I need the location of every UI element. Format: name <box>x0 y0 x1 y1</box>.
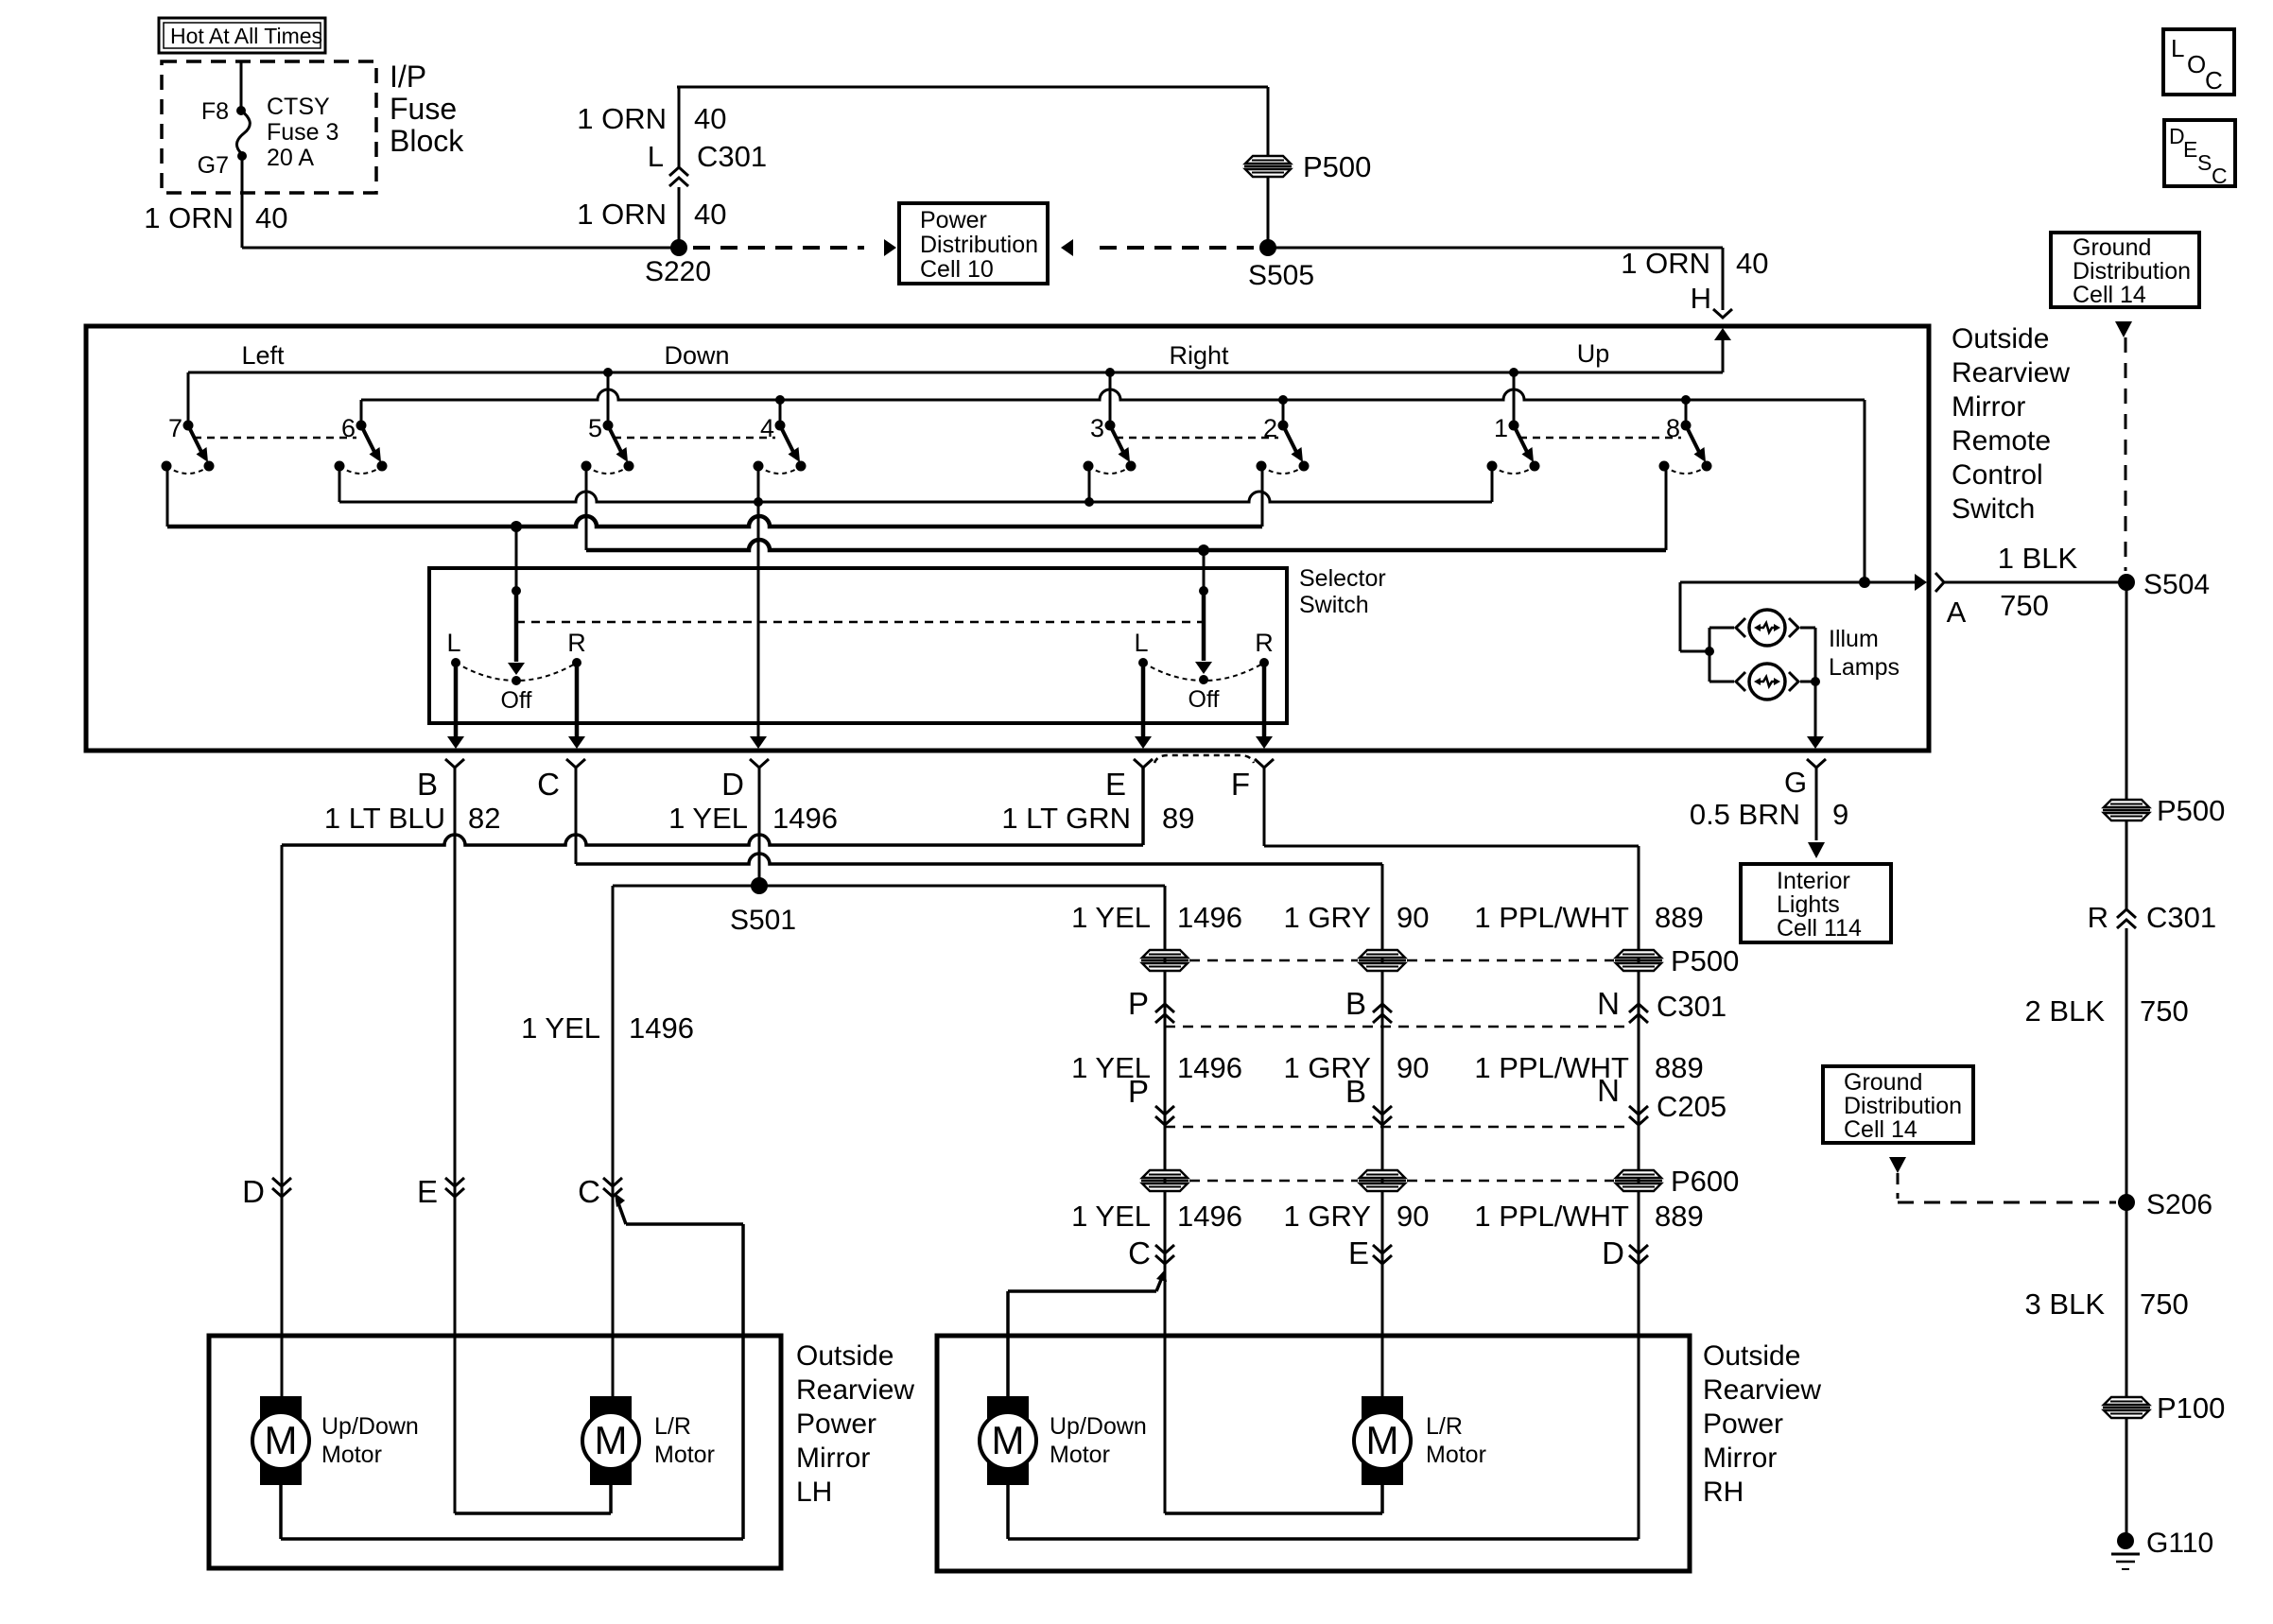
wire 6L down <box>338 466 341 502</box>
label row2 1 YEL 1496 <box>1071 1051 1242 1084</box>
connector pin F <box>1255 759 1274 768</box>
wire selector-right feed <box>1203 550 1206 588</box>
wire 1L down <box>1491 466 1494 502</box>
svg-text:Distribution: Distribution <box>1844 1093 1962 1119</box>
svg-text:40: 40 <box>694 102 726 135</box>
wire riser pivot 6 <box>360 400 363 422</box>
node bus B tap 4 <box>775 395 785 405</box>
label 1 ORN 40 below C301 <box>577 198 726 231</box>
connector A <box>1935 573 1967 629</box>
wire 4L to connector D <box>750 466 767 749</box>
svg-text:Interior: Interior <box>1777 868 1850 894</box>
svg-text:S220: S220 <box>645 256 711 287</box>
contact selector-left R <box>567 629 586 667</box>
fuse F8 terminal <box>236 106 246 115</box>
wire S206 to P100 <box>2126 1210 2128 1399</box>
wire 1 ORN 40 from fuse <box>242 156 673 248</box>
wire bus B <box>361 389 1865 400</box>
svg-text:889: 889 <box>1655 1200 1704 1233</box>
svg-text:D: D <box>721 767 744 802</box>
svg-text:Lights: Lights <box>1777 891 1840 918</box>
wire RH C-pin to LR motor bottom <box>1165 1485 1382 1513</box>
connector C301 PPL pin N <box>1629 1004 1648 1023</box>
node selector-right <box>1199 586 1208 596</box>
svg-text:L/R: L/R <box>654 1413 691 1440</box>
svg-text:1 LT BLU: 1 LT BLU <box>324 802 445 835</box>
svg-text:Up/Down: Up/Down <box>1050 1413 1147 1440</box>
motor LH L/R <box>582 1396 715 1485</box>
wire RH UpDown top to pin C (jog arrow) <box>1008 1270 1167 1396</box>
box Outside Rearview Mirror Remote Control Switch <box>86 326 1929 751</box>
label 1 YEL 1496 mid <box>521 1011 694 1045</box>
dashed link P500 row <box>1189 959 1614 962</box>
svg-text:1 ORN: 1 ORN <box>577 102 667 135</box>
svg-text:S505: S505 <box>1248 260 1314 291</box>
connector P500 PPL <box>1615 950 1662 971</box>
svg-text:Selector: Selector <box>1299 565 1386 592</box>
wire P100 to G110 <box>2126 1417 2128 1534</box>
label C205 mid <box>1657 1090 1726 1123</box>
svg-text:1496: 1496 <box>1177 1051 1242 1084</box>
wire riser pivot 5 <box>607 372 610 422</box>
wire LH UpDown bottom to pin C (jog arrow) <box>281 1193 743 1539</box>
svg-text:Power: Power <box>796 1408 876 1440</box>
dashed connector bracket E-F <box>1154 755 1254 763</box>
wire S501 to LH pin C <box>613 886 759 1396</box>
label row3 1 PPL/WHT 889 <box>1474 1200 1703 1233</box>
svg-text:LH: LH <box>796 1477 832 1508</box>
svg-text:889: 889 <box>1655 901 1704 934</box>
label P500 mid <box>1671 944 1739 977</box>
svg-text:C: C <box>537 767 560 802</box>
svg-text:Distribution: Distribution <box>920 232 1038 258</box>
label P B N row1 <box>1128 986 1620 1021</box>
svg-text:Outside: Outside <box>796 1340 894 1372</box>
svg-text:Fuse 3: Fuse 3 <box>267 119 338 146</box>
wire LH pin D column <box>281 845 284 1396</box>
connector RH pin D <box>1602 1235 1648 1270</box>
wire 3L down <box>1088 466 1091 502</box>
svg-text:Outside: Outside <box>1703 1340 1800 1372</box>
connector P500 GRY <box>1359 950 1406 971</box>
svg-text:C: C <box>2205 66 2223 95</box>
dashed link 1-8 <box>1519 437 1681 440</box>
dashed arc selector-left <box>456 663 577 681</box>
wire 7L down <box>166 466 169 527</box>
svg-text:2 BLK: 2 BLK <box>2025 994 2106 1028</box>
svg-text:S501: S501 <box>730 905 796 936</box>
wire fuse feed <box>240 61 243 107</box>
wire bus 531 (6L to 1L) <box>339 492 1492 502</box>
svg-text:C301: C301 <box>697 140 767 173</box>
selector-right wiper arrow <box>1195 591 1212 674</box>
connector RH pin E <box>1348 1235 1392 1270</box>
node selector-left tap <box>511 521 522 532</box>
connector pin E <box>1134 759 1153 768</box>
junction S504 <box>2118 569 2210 600</box>
label Illum Lamps <box>1829 626 1900 681</box>
label row1 1 YEL 1496 <box>1071 901 1242 934</box>
svg-text:E: E <box>1348 1235 1369 1270</box>
label Down <box>664 341 729 370</box>
label 1 BLK 750 <box>1998 542 2078 622</box>
ground triangle upper <box>2115 321 2132 337</box>
node illum junction <box>1859 577 1870 588</box>
motor RH Up/Down <box>980 1396 1147 1485</box>
svg-text:Mirror: Mirror <box>1703 1443 1777 1474</box>
svg-text:40: 40 <box>694 198 726 231</box>
svg-text:Cell 14: Cell 14 <box>2073 282 2146 308</box>
node bus A tap 3 <box>1105 368 1115 377</box>
svg-text:I/P: I/P <box>390 60 426 94</box>
junction S501 <box>730 877 796 936</box>
node selector-left <box>512 586 521 596</box>
switch pole 7 <box>162 414 215 474</box>
svg-text:40: 40 <box>1736 247 1768 280</box>
connector pin D <box>750 759 769 768</box>
svg-text:R: R <box>2088 901 2108 934</box>
switch pole 3 <box>1084 414 1136 474</box>
node bus A tap 5 <box>603 368 613 377</box>
svg-text:S206: S206 <box>2146 1189 2212 1220</box>
switch pole 1 <box>1487 414 1540 474</box>
svg-text:Up/Down: Up/Down <box>321 1413 419 1440</box>
dashed link C301 row <box>1165 1026 1629 1028</box>
svg-text:1 GRY: 1 GRY <box>1284 901 1371 934</box>
svg-text:1 ORN: 1 ORN <box>1621 247 1710 280</box>
svg-text:82: 82 <box>468 802 500 835</box>
svg-text:1 PPL/WHT: 1 PPL/WHT <box>1474 1200 1629 1233</box>
junction S206 <box>2118 1189 2212 1220</box>
box Outside Rearview Power Mirror RH <box>937 1336 1690 1571</box>
svg-text:90: 90 <box>1397 1051 1429 1084</box>
wire R to connector C <box>568 663 585 749</box>
connector P500 right rail <box>2103 794 2225 827</box>
svg-text:9: 9 <box>1832 798 1848 831</box>
svg-text:1496: 1496 <box>1177 901 1242 934</box>
switch pole 8 <box>1659 414 1712 474</box>
svg-text:L: L <box>1134 629 1148 657</box>
svg-text:P100: P100 <box>2157 1391 2225 1425</box>
svg-text:Rearview: Rearview <box>1703 1374 1821 1406</box>
svg-text:90: 90 <box>1397 901 1429 934</box>
label P B N row2 <box>1128 1073 1620 1109</box>
label Selector Switch <box>1299 565 1386 618</box>
node 3L on bus 531 <box>1084 497 1094 507</box>
motor RH L/R <box>1354 1396 1486 1485</box>
svg-text:Ground: Ground <box>2073 234 2151 261</box>
wire RH E column <box>1381 864 1384 1396</box>
svg-text:Off: Off <box>501 687 532 714</box>
wire illum lower out <box>1800 681 1815 683</box>
svg-text:0.5 BRN: 0.5 BRN <box>1690 798 1800 831</box>
wire link 894 (E to LH pin D) <box>282 768 1143 845</box>
label 0.5 BRN 9 <box>1690 798 1848 831</box>
connector P500 top <box>1244 150 1371 183</box>
label F <box>1231 767 1250 802</box>
label 2 BLK 750 <box>2025 994 2189 1028</box>
svg-text:P500: P500 <box>1671 944 1739 977</box>
ground triangle lower <box>1889 1157 1906 1173</box>
svg-text:G: G <box>1784 766 1807 799</box>
motor LH Up/Down <box>252 1396 419 1485</box>
svg-text:E: E <box>417 1174 438 1209</box>
connector C205 PPL pin N <box>1629 1106 1648 1125</box>
label C301 mid <box>1657 990 1726 1023</box>
svg-text:Motor: Motor <box>321 1442 382 1468</box>
svg-text:L: L <box>446 629 460 657</box>
wire L to connector B <box>447 663 464 749</box>
svg-text:Remote: Remote <box>1952 425 2051 457</box>
label I/P Fuse Block <box>390 60 464 158</box>
switch pole 6 <box>335 414 388 474</box>
dashed arc selector-right <box>1143 663 1264 681</box>
svg-text:Switch: Switch <box>1299 592 1369 618</box>
dashed mech link selector <box>516 621 1204 624</box>
svg-text:H: H <box>1691 282 1711 315</box>
label C <box>537 767 560 802</box>
svg-text:Motor: Motor <box>654 1442 715 1468</box>
svg-text:S: S <box>2197 150 2212 175</box>
connector RH pin C <box>1128 1235 1174 1270</box>
svg-text:1496: 1496 <box>772 802 838 835</box>
wire S505 to H <box>1268 248 1723 310</box>
svg-text:Ground: Ground <box>1844 1069 1922 1096</box>
connector LH pin C <box>578 1174 622 1209</box>
wire riser pivot 3 <box>1109 372 1112 422</box>
label D <box>721 767 744 802</box>
box Power Distribution Cell 10 <box>899 203 1048 284</box>
svg-text:Cell 10: Cell 10 <box>920 256 994 283</box>
svg-text:N: N <box>1597 1073 1620 1108</box>
svg-text:F8: F8 <box>201 98 229 125</box>
junction S220 <box>645 239 711 287</box>
svg-text:C: C <box>2212 164 2228 188</box>
connector P600 YEL <box>1141 1170 1189 1191</box>
connector C301 GRY pin B <box>1373 1004 1392 1023</box>
label 1 LT BLU 82 <box>324 802 501 835</box>
wire bus A <box>188 372 1723 422</box>
switch pole 5 <box>581 414 634 474</box>
svg-text:Switch: Switch <box>1952 493 2035 525</box>
svg-text:90: 90 <box>1397 1200 1429 1233</box>
svg-text:750: 750 <box>2000 589 2049 622</box>
svg-text:Illum: Illum <box>1829 626 1879 652</box>
svg-text:Control: Control <box>1952 459 2043 491</box>
svg-text:B: B <box>417 767 438 802</box>
wire B to LH pin E <box>454 768 457 1513</box>
svg-text:1 YEL: 1 YEL <box>1071 1200 1151 1233</box>
label Up <box>1577 339 1610 368</box>
connector P500 YEL <box>1141 950 1189 971</box>
svg-text:89: 89 <box>1162 802 1194 835</box>
connector R C301 <box>2088 901 2217 934</box>
svg-text:N: N <box>1597 986 1620 1021</box>
svg-text:Motor: Motor <box>1050 1442 1110 1468</box>
wire riser pivot 4 <box>779 400 782 422</box>
svg-text:R: R <box>567 629 586 657</box>
svg-text:R: R <box>1255 629 1274 657</box>
label 1 YEL 1496 top <box>668 802 838 835</box>
node bus A tap 1 <box>1509 368 1518 377</box>
wire illum to connector G <box>1807 628 1824 749</box>
label 3 BLK 750 <box>2025 1287 2189 1321</box>
svg-text:CTSY: CTSY <box>267 94 330 120</box>
wire C down <box>575 768 578 864</box>
svg-text:A: A <box>1947 596 1967 629</box>
ground G110 <box>2111 1528 2213 1569</box>
svg-text:1 YEL: 1 YEL <box>1071 901 1151 934</box>
contact selector-left Off <box>512 676 521 685</box>
connector P600 PPL <box>1615 1170 1662 1191</box>
label 1 ORN 40 above C301 <box>577 102 726 135</box>
svg-text:Outside: Outside <box>1952 323 2049 354</box>
label P600 mid <box>1671 1165 1739 1198</box>
fuse CTSY Fuse 3 20A element <box>236 111 250 154</box>
connector LH pin E <box>417 1174 464 1209</box>
node illum branch <box>1705 647 1714 656</box>
contact selector-left L <box>446 629 460 667</box>
svg-text:D: D <box>1602 1235 1624 1270</box>
svg-text:1496: 1496 <box>629 1011 694 1045</box>
wire 8L down <box>1665 466 1668 550</box>
node bus B tap 2 <box>1278 395 1288 405</box>
connector L C301 <box>648 140 767 186</box>
svg-text:RH: RH <box>1703 1477 1744 1508</box>
dashed link 5-4 <box>614 437 775 440</box>
wire P500 to S505 <box>1267 176 1270 248</box>
dashed wire ground to S206 <box>1898 1173 2116 1202</box>
node illum out junction <box>1811 677 1820 686</box>
svg-text:3: 3 <box>1090 414 1104 442</box>
svg-text:C301: C301 <box>2146 901 2216 934</box>
label E <box>1105 767 1126 802</box>
label B <box>417 767 438 802</box>
svg-text:5: 5 <box>588 414 602 442</box>
wire illum left drop <box>1680 582 1709 651</box>
svg-text:G7: G7 <box>198 152 229 179</box>
wire link 914 (C to RH E column) <box>576 854 1382 864</box>
svg-text:Rearview: Rearview <box>796 1374 914 1406</box>
label row3 1 GRY 90 <box>1284 1200 1430 1233</box>
connector H <box>1691 282 1732 318</box>
svg-text:P500: P500 <box>2157 794 2225 827</box>
label Outside Rearview Power Mirror LH <box>796 1340 914 1508</box>
svg-text:Hot At All Times: Hot At All Times <box>170 24 322 48</box>
svg-text:1 LT GRN: 1 LT GRN <box>1001 802 1131 835</box>
node bus B tap 8 <box>1681 395 1691 405</box>
box Outside Rearview Power Mirror LH <box>209 1336 781 1568</box>
label row2 1 GRY 90 <box>1284 1051 1430 1084</box>
box Hot At All Times <box>159 18 325 53</box>
svg-text:P: P <box>1128 1074 1149 1109</box>
svg-text:E: E <box>1105 767 1126 802</box>
svg-text:B: B <box>1345 1074 1366 1109</box>
svg-text:20 A: 20 A <box>267 145 314 171</box>
switch pole 2 <box>1257 414 1310 474</box>
contact selector-right Off <box>1199 675 1208 684</box>
svg-text:Mirror: Mirror <box>1952 391 2025 423</box>
wire bus 582 (5L to 8L) <box>586 540 1666 550</box>
svg-text:E: E <box>2183 137 2197 162</box>
svg-text:M: M <box>992 1418 1025 1462</box>
wire bus 557 (7L to 2L) <box>167 516 1262 527</box>
svg-text:C: C <box>578 1174 600 1209</box>
label row1 1 GRY 90 <box>1284 901 1430 934</box>
svg-text:L: L <box>2171 34 2184 62</box>
label row3 1 YEL 1496 <box>1071 1200 1242 1233</box>
connector pin C <box>566 759 585 768</box>
svg-text:C205: C205 <box>1657 1090 1726 1123</box>
svg-text:M: M <box>1366 1418 1399 1462</box>
wire illum upper branch <box>1709 628 1734 651</box>
label row1 1 PPL/WHT 889 <box>1474 901 1703 934</box>
svg-text:889: 889 <box>1655 1051 1704 1084</box>
svg-text:P: P <box>1128 986 1149 1021</box>
wire riser pivot 8 <box>1685 400 1688 422</box>
label G7 <box>198 152 229 179</box>
wire 5L down <box>585 466 588 550</box>
svg-text:1: 1 <box>1494 414 1508 442</box>
illum lamp lower <box>1736 664 1798 700</box>
wire RH D-pin to UpDown bottom <box>1008 1485 1639 1539</box>
connector pin G <box>1807 759 1826 768</box>
svg-text:Off: Off <box>1189 686 1220 713</box>
svg-text:D: D <box>242 1174 265 1209</box>
wire S501 to RH C column <box>759 886 1165 1513</box>
label Left <box>241 341 285 370</box>
svg-text:C: C <box>1128 1235 1151 1270</box>
svg-text:40: 40 <box>255 201 287 234</box>
svg-text:1 PPL/WHT: 1 PPL/WHT <box>1474 901 1629 934</box>
svg-text:Distribution: Distribution <box>2073 258 2191 285</box>
svg-text:1496: 1496 <box>1177 1200 1242 1233</box>
label Off right <box>1189 686 1220 713</box>
label row2 1 PPL/WHT 889 <box>1474 1051 1703 1084</box>
label F8 <box>201 98 229 125</box>
svg-text:C301: C301 <box>1657 990 1726 1023</box>
box Interior Lights Cell 114 <box>1741 864 1891 942</box>
label CTSY Fuse 3 20 A <box>267 94 338 171</box>
node selector-right tap <box>1198 544 1209 556</box>
dashed arrow S505 to Power Distribution <box>1061 239 1254 256</box>
wire C301 to S206 <box>2126 928 2128 1196</box>
box Ground Distribution Cell 14 upper <box>2051 233 2199 308</box>
svg-text:7: 7 <box>168 414 182 442</box>
node 4L on bus 531 <box>754 497 763 507</box>
svg-text:Power: Power <box>920 207 987 233</box>
label Off left <box>501 687 532 714</box>
wire riser pivot 1 <box>1513 372 1516 422</box>
connector P600 GRY <box>1359 1170 1406 1191</box>
label Outside Rearview Power Mirror RH <box>1703 1340 1821 1508</box>
svg-text:Rearview: Rearview <box>1952 357 2070 389</box>
box Ground Distribution Cell 14 lower <box>1823 1066 1973 1143</box>
dashed wire to S504 <box>2125 337 2127 571</box>
contact selector-right R <box>1255 629 1274 667</box>
svg-text:S504: S504 <box>2143 569 2210 600</box>
wire 2L down <box>1261 466 1264 527</box>
svg-text:Fuse: Fuse <box>390 92 457 126</box>
switch pole 4 <box>754 414 807 474</box>
dashed link 7-6 <box>194 437 356 440</box>
wire S504 to P500 <box>2126 582 2128 802</box>
dashed link 3-2 <box>1116 437 1278 440</box>
selector-left wiper arrow <box>508 591 525 675</box>
svg-text:750: 750 <box>2140 994 2189 1028</box>
box DESC <box>2164 120 2235 188</box>
junction S505 <box>1248 239 1314 291</box>
